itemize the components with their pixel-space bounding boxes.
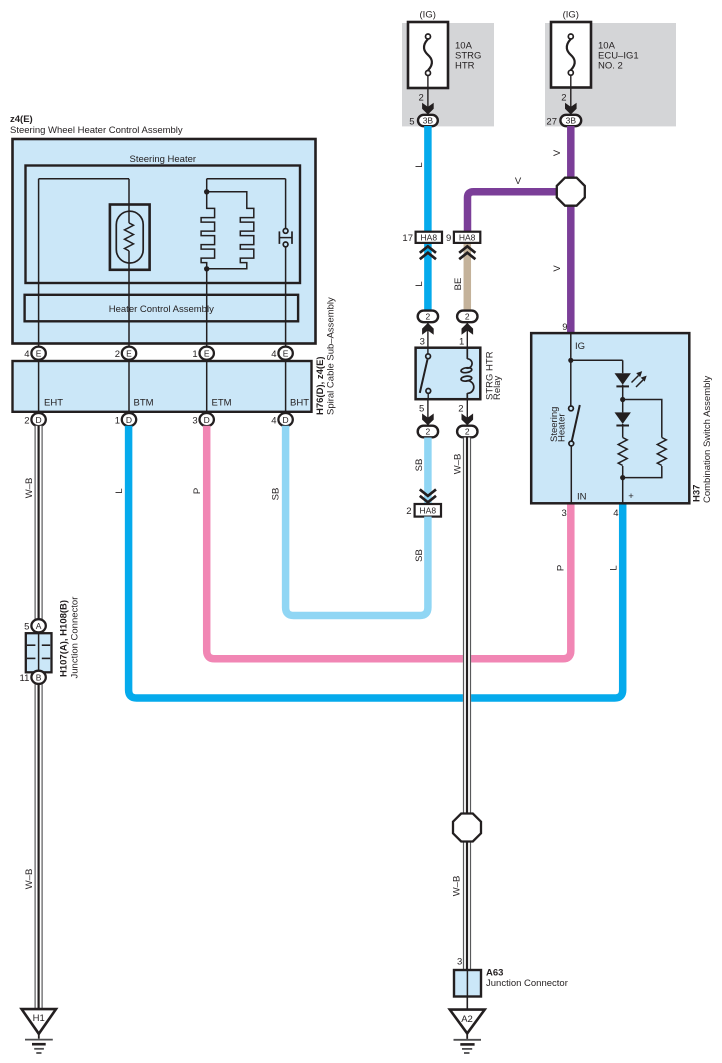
- block Heater Control Assembly: [25, 295, 299, 322]
- svg-text:E: E: [126, 348, 132, 358]
- connector HA8 pin 17: [402, 232, 442, 244]
- svg-text:2: 2: [426, 427, 431, 437]
- connector row D: pin 4(D): [271, 413, 292, 426]
- svg-text:V: V: [552, 265, 563, 272]
- wire L (blue) fuse to HA8: [424, 126, 432, 232]
- wire col1 vertical EHT: [38, 179, 40, 350]
- svg-text:BE: BE: [453, 278, 464, 291]
- wire right resistor to bottom node: [623, 466, 662, 478]
- node bottom: [620, 475, 625, 480]
- svg-text:SB: SB: [414, 459, 425, 472]
- svg-text:ETM: ETM: [212, 398, 232, 409]
- chevrons below HA8 17: [420, 246, 436, 259]
- connector row D: pin 1(D): [115, 413, 136, 426]
- arrow into 3B right: [565, 103, 577, 115]
- connector row E: pin 2(E): [115, 347, 136, 361]
- svg-text:HA8: HA8: [421, 232, 438, 242]
- svg-text:L: L: [414, 162, 425, 167]
- svg-text:(IG): (IG): [563, 10, 579, 21]
- svg-text:SB: SB: [271, 488, 282, 501]
- svg-text:W–B: W–B: [24, 869, 35, 890]
- junction connector H107/H108: pin 5(A): [24, 619, 46, 632]
- svg-text:NO. 2: NO. 2: [598, 61, 623, 72]
- svg-text:V: V: [515, 176, 522, 187]
- connector 2 oval (SB out): [418, 426, 438, 438]
- svg-text:1: 1: [115, 415, 120, 426]
- relay coil: [461, 348, 474, 400]
- svg-text:z4(E): z4(E): [10, 114, 33, 125]
- svg-text:4: 4: [24, 349, 29, 360]
- switch Steering Heater: [569, 405, 580, 446]
- svg-text:B: B: [36, 673, 42, 683]
- svg-text:D: D: [283, 415, 289, 425]
- node IG branch: [568, 358, 573, 363]
- svg-text:L: L: [414, 281, 425, 286]
- wire D1 to node: [622, 385, 624, 400]
- svg-text:9: 9: [446, 233, 451, 244]
- wire col2 vertical upper: [128, 179, 130, 223]
- svg-text:2: 2: [465, 427, 470, 437]
- svg-text:3: 3: [420, 336, 425, 347]
- svg-text:Junction Connector: Junction Connector: [486, 978, 568, 989]
- svg-text:2: 2: [465, 312, 470, 322]
- svg-text:2: 2: [24, 415, 29, 426]
- connector row D: pin 3(D): [192, 413, 213, 426]
- svg-text:IG: IG: [575, 341, 585, 352]
- arrow down into oval 2 (SB): [422, 414, 434, 426]
- wire top horizontal col3-col4: [207, 178, 286, 180]
- fuse panel (left, gray): [402, 23, 494, 126]
- wire col2 through spiral box: [128, 359, 130, 417]
- wire D2 to resistor: [622, 424, 624, 438]
- connector row E: pin 4(E): [24, 347, 45, 361]
- chevrons down above HA8 2: [420, 489, 436, 502]
- arrow up into connector 2 (left): [422, 323, 434, 335]
- svg-text:2: 2: [115, 349, 120, 360]
- wire V branch to HA8: [468, 192, 571, 232]
- svg-text:D: D: [126, 415, 132, 425]
- fuse F2 10A ECU-IG1 NO.2: [551, 22, 591, 88]
- connector 3B right, pin 27: [546, 115, 581, 128]
- wire col3 stub to node: [206, 179, 208, 192]
- wire thin below relay pin 2: [466, 399, 468, 425]
- heater element R1 capsule: [116, 211, 143, 263]
- LED D1 emission arrows: [632, 376, 644, 388]
- connector row E: pin 4(E) right: [271, 347, 292, 361]
- wire A63 to ground: [466, 997, 468, 1010]
- connector HA8 pin 2: [406, 504, 441, 517]
- svg-text:9: 9: [562, 322, 567, 333]
- svg-text:2: 2: [561, 93, 566, 104]
- connector 2 oval (W-B out): [457, 426, 477, 438]
- svg-text:L: L: [114, 488, 125, 493]
- wire L from BTM column to switch pin 4: [129, 426, 623, 698]
- arrow down into oval 2 (W-B): [462, 414, 474, 426]
- svg-text:4: 4: [271, 349, 276, 360]
- svg-text:P: P: [556, 565, 567, 571]
- wire col3 vertical lower: [206, 269, 208, 350]
- svg-text:E: E: [36, 348, 42, 358]
- wire col4 through spiral box: [285, 359, 287, 417]
- svg-text:4: 4: [271, 415, 276, 426]
- wire P from ETM column to switch pin 3: [207, 426, 571, 659]
- svg-text:H1: H1: [33, 1013, 45, 1024]
- svg-text:Junction Connector: Junction Connector: [70, 597, 81, 679]
- heater element R1 resistor zigzag: [125, 223, 134, 251]
- junction connector H107/H108 body: [26, 633, 52, 672]
- svg-text:H76(D), z4(E): H76(D), z4(E): [315, 356, 326, 415]
- junction octagon on W-B: [453, 814, 481, 842]
- svg-text:3: 3: [192, 415, 197, 426]
- wire branch to LED column: [571, 359, 623, 361]
- push button switch SW1: [279, 229, 292, 247]
- wire fuse F2 to connector: [570, 75, 572, 114]
- resistor R3 right zigzag: [657, 438, 666, 466]
- connector row D: pin 2(D): [24, 413, 45, 426]
- wire col3 through spiral box: [206, 359, 208, 417]
- svg-text:L: L: [609, 565, 620, 570]
- svg-text:E: E: [204, 348, 210, 358]
- svg-text:BTM: BTM: [134, 398, 154, 409]
- svg-text:27: 27: [546, 116, 557, 127]
- wire col2 vertical lower: [128, 251, 130, 350]
- relay switch contacts: [420, 348, 431, 400]
- svg-text:HTR: HTR: [455, 61, 475, 72]
- svg-text:(IG): (IG): [420, 10, 436, 21]
- connector 2 oval (L into relay): [418, 311, 438, 323]
- wire W-B left (white with black tracer): [35, 426, 43, 1010]
- arrow up into connector 2 (right): [462, 323, 474, 335]
- svg-text:BHT: BHT: [290, 398, 309, 409]
- wire node to D2: [622, 400, 624, 413]
- svg-text:4: 4: [613, 508, 618, 519]
- wire L HA8 to relay connector: [424, 244, 432, 311]
- svg-text:E: E: [283, 348, 289, 358]
- block H76(D) z4(E) Spiral Cable Sub-Assembly: [13, 361, 312, 412]
- svg-text:Heater Control Assembly: Heater Control Assembly: [109, 304, 214, 315]
- relay STRG HTR Relay box: [416, 348, 481, 400]
- wire V (violet) main vertical: [567, 126, 575, 333]
- arrow into 3B left: [422, 103, 434, 115]
- wire col4 vertical upper: [285, 179, 287, 229]
- heater element R1 outer rect: [110, 205, 150, 270]
- svg-text:2: 2: [406, 506, 411, 517]
- wire IG vertical to switch: [570, 333, 572, 406]
- svg-text:A: A: [36, 621, 42, 631]
- svg-text:W–B: W–B: [24, 478, 35, 499]
- svg-text:P: P: [192, 488, 203, 494]
- svg-text:A63: A63: [486, 968, 503, 979]
- junction connector H107/H108: pin 11(B): [20, 671, 46, 684]
- wire top horizontal col1-col2: [39, 178, 129, 180]
- ground A2: [450, 1010, 485, 1053]
- connector row E: pin 1(E): [192, 347, 213, 361]
- svg-text:A2: A2: [461, 1014, 473, 1025]
- svg-text:Steering Wheel Heater Control: Steering Wheel Heater Control Assembly: [10, 125, 183, 136]
- svg-text:3B: 3B: [423, 116, 434, 126]
- svg-text:SB: SB: [414, 549, 425, 562]
- svg-text:5: 5: [409, 116, 414, 127]
- inner block Steering Heater: [26, 166, 301, 284]
- connector 3B left, pin 5: [409, 115, 438, 128]
- block H37 Combination Switch Assembly: [531, 333, 689, 503]
- svg-text:Spiral Cable Sub–Assembly: Spiral Cable Sub–Assembly: [326, 297, 337, 415]
- wire fuse F1 to connector: [427, 76, 429, 115]
- svg-text:2: 2: [458, 404, 463, 415]
- svg-text:2: 2: [426, 312, 431, 322]
- fuse panel (right, gray): [545, 23, 676, 126]
- fuse F1 10A STRG HTR: [408, 22, 448, 88]
- junction connector A63 body: [454, 970, 481, 997]
- wire SB relay to HA8: [424, 438, 432, 504]
- wire col1 through spiral box: [38, 359, 40, 417]
- junction octagon on V: [557, 178, 585, 206]
- wire LED column upper: [622, 360, 624, 373]
- svg-text:17: 17: [402, 233, 413, 244]
- LED D1: [615, 373, 631, 386]
- wire BE HA8 to relay connector: [464, 244, 472, 311]
- svg-text:W–B: W–B: [452, 876, 463, 897]
- connector HA8 pin 9: [446, 232, 480, 244]
- wire thin above relay right pin 1: [466, 323, 468, 348]
- wire SB down from HA8 and left to BHT column: [286, 426, 428, 616]
- svg-text:IN: IN: [577, 492, 587, 503]
- svg-text:3: 3: [562, 508, 567, 519]
- svg-text:1: 1: [459, 336, 464, 347]
- svg-text:Steering Heater: Steering Heater: [130, 154, 197, 165]
- node bottom of meander: [204, 266, 209, 271]
- svg-text:Heater: Heater: [557, 413, 568, 442]
- svg-text:3B: 3B: [566, 116, 577, 126]
- svg-text:H37: H37: [692, 485, 703, 502]
- connector 2 oval (BE into relay): [457, 311, 477, 323]
- ground H1: [22, 1009, 56, 1053]
- wire left resistor to bottom node: [622, 466, 624, 503]
- svg-text:1: 1: [192, 349, 197, 360]
- svg-text:HA8: HA8: [420, 505, 437, 515]
- svg-text:+: +: [628, 491, 634, 502]
- wire thin above relay left pin 3: [427, 323, 429, 348]
- heater element right meander: [207, 192, 254, 269]
- wire col4 vertical lower: [285, 247, 287, 350]
- node top of meander: [204, 189, 209, 194]
- wire switch to IN: [570, 446, 572, 503]
- resistor R2 left zigzag: [618, 438, 627, 466]
- svg-text:5: 5: [419, 404, 424, 415]
- chevrons below HA8 9: [459, 246, 475, 259]
- block z4(E) Steering Wheel Heater Control Assembly: [13, 139, 316, 344]
- node LED branch: [620, 397, 625, 402]
- heater element left meander: [201, 192, 215, 269]
- svg-text:11: 11: [20, 673, 30, 684]
- wire thin below relay pin 5: [427, 399, 429, 425]
- svg-text:V: V: [552, 149, 563, 156]
- wire branch to right resistor: [623, 400, 662, 438]
- svg-text:HA8: HA8: [459, 232, 476, 242]
- svg-text:W–B: W–B: [453, 454, 464, 475]
- svg-text:H107(A), H108(B): H107(A), H108(B): [59, 600, 70, 677]
- svg-text:3: 3: [457, 957, 462, 968]
- svg-text:EHT: EHT: [44, 398, 63, 409]
- LED D2: [615, 412, 631, 425]
- svg-text:D: D: [36, 415, 42, 425]
- svg-text:Relay: Relay: [492, 375, 503, 400]
- svg-text:Combination Switch Assembly: Combination Switch Assembly: [702, 376, 713, 503]
- svg-text:5: 5: [24, 622, 29, 633]
- svg-text:D: D: [204, 415, 210, 425]
- svg-text:2: 2: [419, 93, 424, 104]
- wire W-B middle (white with black tracer): [463, 438, 471, 971]
